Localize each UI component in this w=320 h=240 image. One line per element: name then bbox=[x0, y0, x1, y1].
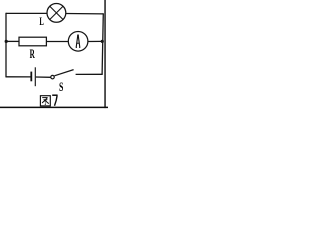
node B (right junction) bbox=[101, 40, 104, 43]
svg-text:S: S bbox=[59, 80, 63, 95]
caption 7 bbox=[52, 95, 57, 106]
resistor R bbox=[19, 37, 46, 46]
ammeter letter A bbox=[76, 35, 81, 48]
svg-text:L: L bbox=[39, 16, 43, 28]
wire right vertical bbox=[102, 13, 103, 74]
wire middle branch center bbox=[46, 41, 68, 43]
wire bottom-right segment bbox=[76, 73, 103, 75]
wire middle branch right bbox=[88, 40, 102, 42]
svg-text:R: R bbox=[30, 48, 36, 61]
lamp L bbox=[47, 4, 66, 23]
node A (left junction) bbox=[5, 40, 8, 43]
switch S bbox=[51, 70, 74, 79]
wire left vertical bbox=[5, 13, 7, 78]
border bottom edge bbox=[0, 106, 108, 108]
wire battery to switch bbox=[36, 76, 51, 78]
border right edge bbox=[104, 0, 106, 108]
wire top-right segment bbox=[66, 13, 104, 15]
wire middle branch left bbox=[6, 40, 19, 42]
wire top-left segment bbox=[6, 12, 47, 14]
battery BT1 bbox=[31, 67, 35, 86]
wire bottom-left segment bbox=[6, 76, 31, 78]
caption 图 (drawn strokes) bbox=[40, 96, 50, 106]
ammeter U1 bbox=[68, 32, 88, 52]
